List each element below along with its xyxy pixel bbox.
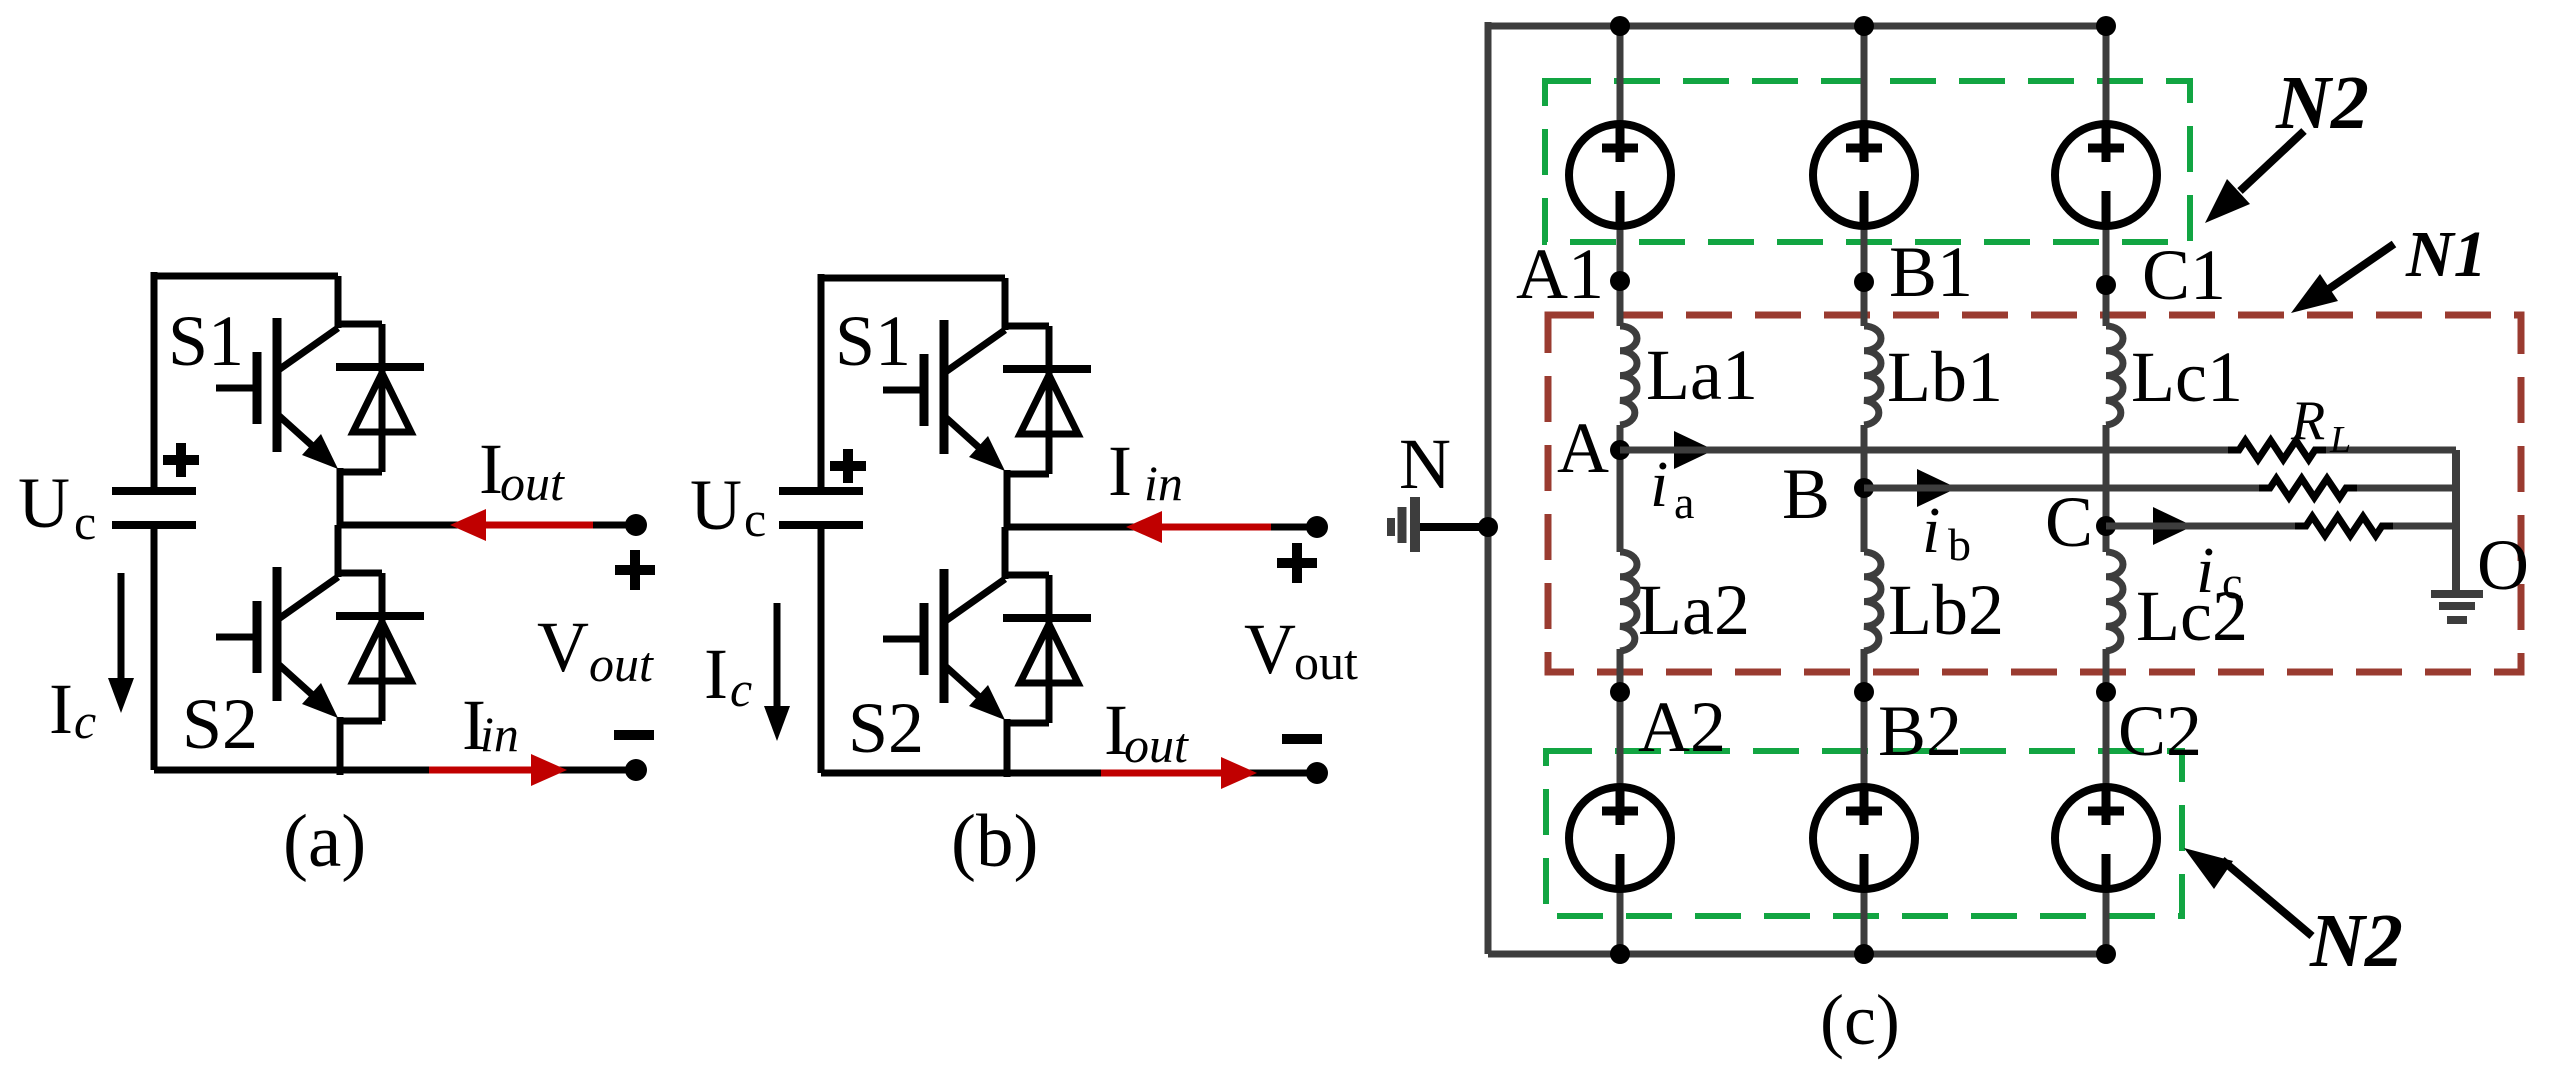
node B1 (1854, 272, 1874, 292)
node: bottom rail A (1610, 944, 1630, 964)
svg-text:N: N (1399, 424, 1451, 504)
svg-text:V: V (1244, 609, 1296, 689)
wire: (c) left rail (1485, 22, 1492, 954)
svg-text:out: out (500, 455, 565, 511)
svg-text:i: i (1922, 494, 1940, 567)
node C (2096, 516, 2116, 536)
node: bottom rail B (1854, 944, 1874, 964)
node: top rail A (1610, 16, 1630, 36)
label + (a Vout) (615, 550, 655, 590)
wire: (a) left rail upper (151, 272, 158, 491)
node A2 (1610, 682, 1630, 702)
svg-text:in: in (1144, 455, 1183, 511)
svg-text:U: U (18, 463, 70, 543)
wire: (a) mid output wire (340, 522, 636, 529)
svg-text:Lb2: Lb2 (1888, 570, 2004, 650)
source Uc1 (2055, 124, 2157, 226)
svg-text:I: I (1108, 431, 1132, 511)
svg-text:in: in (480, 706, 519, 762)
svg-text:(c): (c) (1820, 980, 1900, 1060)
svg-text:(a): (a) (283, 800, 366, 883)
arrow Ic (a) (118, 573, 125, 682)
label + (a cap polarity) (163, 443, 199, 477)
svg-text:b: b (1948, 519, 1971, 570)
svg-text:N1: N1 (2405, 218, 2487, 291)
svg-text:c: c (730, 661, 752, 717)
svg-text:out: out (1124, 717, 1189, 773)
box N1 (dark red dashed) (1548, 315, 2521, 672)
svg-text:c: c (74, 693, 96, 749)
svg-text:L: L (2329, 419, 2351, 461)
arrow Iout (b) red (1101, 770, 1221, 777)
svg-text:S2: S2 (848, 688, 924, 768)
source Ub1 (1813, 124, 1915, 226)
svg-text:A2: A2 (1638, 687, 1726, 767)
svg-text:out: out (589, 636, 654, 692)
wire: load common vertical (2452, 450, 2460, 592)
svg-text:La1: La1 (1646, 335, 1758, 415)
label minus (b Vout) (1282, 734, 1322, 744)
transistor S2 (a) IGBT with anti-parallel diode (216, 525, 424, 775)
node: (b) output - terminal (1306, 762, 1328, 784)
svg-text:Lc2: Lc2 (2136, 576, 2248, 656)
node C1 (2096, 275, 2116, 295)
source Ua2 (1569, 787, 1671, 889)
transistor S1 (a) IGBT with anti-parallel diode (216, 276, 424, 526)
svg-text:Lb1: Lb1 (1887, 337, 2003, 417)
svg-text:B: B (1782, 454, 1830, 534)
wire: (b) left rail lower (818, 525, 825, 773)
ground N (left) (1415, 523, 1488, 531)
arrow Iin (a) red (429, 767, 532, 774)
node: bottom rail C (2096, 944, 2116, 964)
capacitor Uc (b) (779, 491, 863, 525)
arrow N2 bottom (2222, 860, 2312, 936)
wire: (c) bottom rail (1488, 951, 2106, 958)
label minus (a Vout) (614, 730, 654, 740)
svg-text:U: U (690, 465, 742, 545)
inductor Lc2 (2106, 552, 2123, 651)
svg-text:c: c (744, 491, 766, 547)
source Uc2 (2055, 787, 2157, 889)
wire: (c) top rail (1488, 23, 2106, 30)
node C2 (2096, 682, 2116, 702)
svg-text:I: I (49, 669, 73, 749)
arrow Iin (b) red (1159, 524, 1271, 531)
source Ua1 (1569, 124, 1671, 226)
svg-text:V: V (537, 607, 589, 687)
node A (1610, 440, 1630, 460)
label + (b Vout) (1277, 543, 1317, 583)
svg-text:a: a (1674, 477, 1694, 528)
svg-text:N2: N2 (2275, 61, 2369, 145)
svg-text:c: c (74, 494, 96, 550)
svg-text:Lc1: Lc1 (2131, 337, 2243, 417)
node: (b) output + terminal (1306, 516, 1328, 538)
svg-text:B1: B1 (1889, 232, 1973, 312)
wire: (a) top rail (154, 273, 338, 280)
arrow ia (1625, 447, 1680, 454)
node: (a) output + terminal (625, 514, 647, 536)
svg-text:C: C (2045, 482, 2093, 562)
arrow N1 (2320, 244, 2394, 295)
svg-text:B2: B2 (1878, 691, 1962, 771)
transistor S1 (b) IGBT with anti-parallel diode (883, 278, 1091, 528)
node: (a) output - terminal (625, 759, 647, 781)
wire: row C to load (2106, 523, 2456, 530)
node B (1854, 478, 1874, 498)
node: top rail C (2096, 16, 2116, 36)
svg-text:A: A (1557, 408, 1609, 488)
label + (b cap polarity) (830, 449, 866, 483)
arrow Ic (b) (774, 603, 781, 710)
svg-text:i: i (1650, 448, 1668, 521)
svg-text:S1: S1 (835, 301, 911, 381)
inductor Lb2 (1864, 552, 1881, 651)
svg-text:La2: La2 (1638, 570, 1750, 650)
ground O (2431, 594, 2483, 620)
resistor RL phase b (2259, 479, 2357, 498)
svg-text:S2: S2 (182, 684, 258, 764)
resistor RL phase a (2228, 441, 2326, 460)
wire: phase A column (1617, 26, 1624, 954)
svg-text:O: O (2477, 525, 2529, 605)
transistor S2 (b) IGBT with anti-parallel diode (883, 527, 1091, 777)
resistor RL phase c (2295, 517, 2393, 536)
wire: (b) top rail (821, 275, 1005, 282)
inductor Lb1 (1864, 326, 1881, 425)
svg-text:out: out (1294, 634, 1358, 690)
wire: (b) bottom rail (821, 770, 1317, 777)
svg-text:C2: C2 (2118, 691, 2202, 771)
svg-text:R: R (2290, 390, 2325, 452)
svg-text:A1: A1 (1516, 234, 1604, 314)
wire: (b) mid output wire (1007, 524, 1317, 531)
wire: row B to load (1864, 485, 2456, 492)
wire: phase C column (2103, 26, 2110, 954)
box N2 upper (green dashed) (1545, 81, 2190, 242)
svg-text:(b): (b) (951, 800, 1038, 883)
svg-text:N2: N2 (2309, 899, 2403, 983)
svg-text:S1: S1 (168, 301, 244, 381)
arrow ib (1869, 485, 1923, 492)
wire: row A to load (1620, 447, 2456, 454)
node A1 (1610, 271, 1630, 291)
node: N junction (1478, 517, 1498, 537)
svg-text:C1: C1 (2142, 235, 2226, 315)
wire: (b) left rail upper (818, 274, 825, 491)
node: top rail B (1854, 16, 1874, 36)
inductor La1 (1620, 326, 1637, 425)
arrow N2 top (2240, 131, 2304, 191)
box N2 lower (green dashed) (1546, 751, 2182, 916)
inductor La2 (1620, 552, 1637, 651)
wire: (a) left rail lower (151, 525, 158, 770)
arrow ic (2111, 523, 2159, 530)
wire: phase B column (1861, 26, 1868, 954)
capacitor Uc (a) (112, 491, 196, 525)
arrow Iout (a) red (483, 522, 593, 529)
source Ub2 (1813, 787, 1915, 889)
inductor Lc1 (2106, 326, 2123, 425)
node B2 (1854, 682, 1874, 702)
wire: (a) bottom rail (154, 767, 636, 774)
svg-text:I: I (704, 634, 728, 714)
